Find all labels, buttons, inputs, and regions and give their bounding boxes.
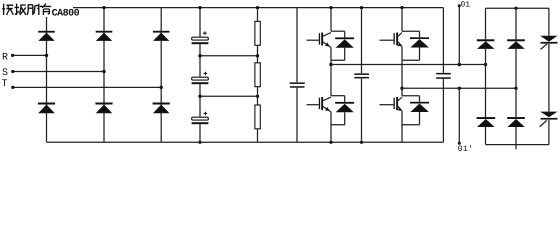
transistor Q3 xyxy=(380,33,403,47)
node terminal 01 xyxy=(458,4,461,7)
diode D1 xyxy=(38,31,55,41)
watermark 版 glyph xyxy=(2,4,13,15)
diode D12 xyxy=(477,117,496,127)
capacitor C2 xyxy=(192,72,209,85)
node leg B output xyxy=(400,87,403,90)
wire Q1 bottom bracket xyxy=(331,47,345,60)
watermark 有 glyph xyxy=(40,4,51,15)
wire Q3 top bracket xyxy=(402,30,420,32)
resistor R1 xyxy=(255,21,260,45)
wire top DC rail xyxy=(47,7,444,9)
diode D9 anti-parallel xyxy=(410,31,429,60)
wire bottom DC rail xyxy=(47,141,444,143)
wire balance tap upper xyxy=(200,55,258,57)
node R junction xyxy=(45,54,48,57)
diode D14 xyxy=(507,117,525,127)
svg-text:S: S xyxy=(2,68,8,79)
diode D13 xyxy=(507,39,525,49)
wire Q2 bottom bracket and emitter riser xyxy=(331,112,345,142)
transistor Q2 xyxy=(307,97,332,112)
wire output bridge top rail xyxy=(486,7,549,9)
wire Q4 bottom bracket and emitter riser xyxy=(402,111,420,142)
thyristor Q5 xyxy=(540,36,557,50)
node T junction xyxy=(160,86,163,89)
node phase A to 01 xyxy=(458,63,461,66)
wire rectifier leg 1 vertical xyxy=(46,8,48,143)
diode D11 xyxy=(477,39,495,49)
IGBT Q3 collector riser xyxy=(401,8,403,32)
diode D8 anti-parallel xyxy=(335,96,354,125)
diode D7 anti-parallel xyxy=(335,31,354,60)
diode D2 xyxy=(38,103,55,114)
node rail junctions top xyxy=(102,6,403,9)
watermark background xyxy=(0,0,73,17)
wire output phase line A xyxy=(331,64,486,66)
wire input S xyxy=(13,71,104,73)
node T terminal xyxy=(11,86,14,89)
wire output terminal 01' xyxy=(458,88,460,143)
capacitor C3 xyxy=(192,112,209,125)
node phase B bridge junction xyxy=(514,87,517,90)
wire output bridge bottom rail xyxy=(486,145,549,150)
wire output bridge column 1 xyxy=(485,8,487,144)
wire Q1 top bracket xyxy=(331,30,345,32)
node tap upper right xyxy=(256,54,259,57)
diode D10 anti-parallel xyxy=(410,96,429,125)
wire output phase line B xyxy=(402,87,516,89)
thyristor Q6 xyxy=(540,112,558,127)
svg-text:T: T xyxy=(2,79,8,90)
node S junction xyxy=(102,70,105,73)
diode D4 xyxy=(95,103,112,114)
diode D5 xyxy=(153,31,170,41)
node tap lower right xyxy=(256,95,259,98)
wire rectifier leg 3 vertical xyxy=(160,8,162,143)
wire bleeder resistor column xyxy=(257,8,259,143)
IGBT Q4 top bracket xyxy=(402,95,420,97)
wire input T xyxy=(13,86,161,88)
wire balance tap lower xyxy=(200,95,258,97)
watermark 权 glyph xyxy=(15,4,26,15)
wire phase leg B midpoint xyxy=(401,60,403,95)
resistor R2 xyxy=(255,63,260,87)
capacitor C1 xyxy=(192,31,209,44)
node phase B to 01' xyxy=(458,87,461,90)
wire snubber capacitor column 1 xyxy=(296,8,298,143)
node tap lower left xyxy=(198,95,201,98)
wire rectifier leg 2 vertical xyxy=(103,8,105,143)
node leg A output xyxy=(329,63,332,66)
diode D6 xyxy=(153,103,170,114)
svg-text:01': 01' xyxy=(458,145,473,154)
wire input R xyxy=(13,54,47,56)
wire snubber capacitor column 2 xyxy=(361,8,363,143)
node terminal 01' xyxy=(458,142,461,145)
node tap upper left xyxy=(198,54,201,57)
wire DC-link capacitor column xyxy=(199,8,201,143)
IGBT Q2 top bracket xyxy=(331,95,345,97)
capacitor C4 xyxy=(290,82,305,87)
svg-text:CA800: CA800 xyxy=(52,8,80,19)
svg-text:01: 01 xyxy=(461,1,471,10)
wire Q3 bottom bracket xyxy=(402,47,420,61)
wire output bridge column 3 xyxy=(548,8,550,144)
transistor Q4 xyxy=(380,97,403,111)
watermark 所 glyph xyxy=(27,4,39,15)
wire output bridge column 2 xyxy=(515,8,517,144)
node phase A bridge junction xyxy=(484,63,487,66)
wire output terminal 01 xyxy=(458,6,460,65)
capacitor C6 xyxy=(436,73,451,79)
node bridge top mid xyxy=(514,7,517,10)
wire phase leg A midpoint xyxy=(330,60,332,95)
capacitor C5 xyxy=(354,73,369,78)
svg-text:R: R xyxy=(2,52,8,63)
IGBT Q1 collector riser xyxy=(330,8,332,32)
node rail junctions bottom xyxy=(198,141,363,144)
transistor Q1 xyxy=(307,33,332,48)
resistor R3 xyxy=(255,105,260,129)
node R terminal xyxy=(11,54,14,57)
node S terminal xyxy=(11,70,14,73)
wire snubber capacitor column 3 xyxy=(442,8,444,143)
diode D3 xyxy=(96,31,113,41)
